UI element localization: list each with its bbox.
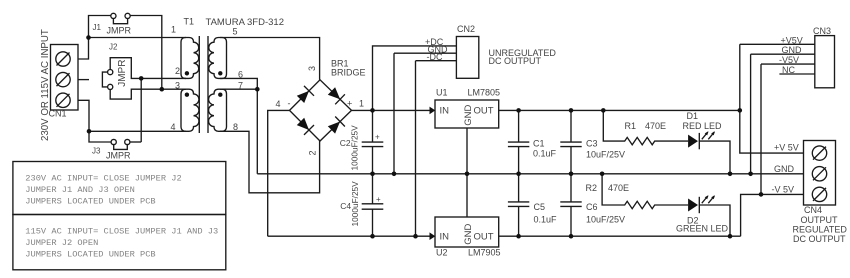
svg-text:1000uF/25V: 1000uF/25V: [350, 181, 360, 227]
svg-text:J2: J2: [109, 43, 118, 52]
svg-text:470E: 470E: [645, 121, 666, 131]
svg-text:115V AC INPUT= CLOSE JUMPER J1: 115V AC INPUT= CLOSE JUMPER J1 AND J3: [25, 227, 218, 237]
svg-text:LM7905: LM7905: [468, 248, 501, 258]
svg-text:C5: C5: [534, 202, 546, 212]
svg-text:0.1uF: 0.1uF: [534, 215, 558, 225]
svg-text:C1: C1: [533, 138, 545, 148]
svg-text:RED LED: RED LED: [683, 121, 723, 131]
svg-text:JMPR: JMPR: [117, 60, 128, 87]
svg-text:3: 3: [175, 81, 180, 91]
svg-text:DC OUTPUT: DC OUTPUT: [793, 234, 846, 244]
svg-text:4: 4: [276, 99, 281, 109]
svg-text:OUT: OUT: [474, 232, 494, 243]
svg-text:8: 8: [233, 122, 238, 132]
svg-text:CN3: CN3: [813, 26, 831, 36]
svg-text:JUMPER J2 OPEN: JUMPER J2 OPEN: [25, 238, 98, 248]
svg-text:GREEN LED: GREEN LED: [676, 224, 729, 234]
svg-text:GND: GND: [463, 224, 474, 245]
svg-text:10uF/25V: 10uF/25V: [586, 215, 625, 225]
svg-text:TAMURA 3FD-312: TAMURA 3FD-312: [206, 17, 284, 28]
svg-text:R1: R1: [625, 121, 637, 131]
svg-text:OUT: OUT: [474, 106, 494, 117]
svg-text:D1: D1: [687, 111, 699, 121]
svg-text:GND: GND: [782, 45, 803, 55]
svg-text:CN1: CN1: [49, 109, 67, 119]
svg-text:GND: GND: [463, 105, 474, 126]
svg-text:J3: J3: [92, 146, 101, 155]
svg-text:-: -: [288, 99, 291, 109]
svg-text:5: 5: [233, 27, 238, 37]
svg-text:2: 2: [175, 66, 180, 76]
svg-text:10uF/25V: 10uF/25V: [586, 150, 625, 160]
svg-text:JMPR: JMPR: [107, 26, 132, 36]
svg-text:JUMPER J1 AND J3 OPEN: JUMPER J1 AND J3 OPEN: [25, 185, 134, 195]
svg-text:+: +: [376, 195, 381, 204]
svg-text:JUMPERS LOCATED UNDER PCB: JUMPERS LOCATED UNDER PCB: [25, 250, 155, 260]
svg-text:IN: IN: [440, 232, 450, 243]
svg-text:T1: T1: [184, 17, 195, 27]
svg-text:LM7805: LM7805: [468, 88, 501, 98]
svg-text:C6: C6: [586, 202, 598, 212]
svg-text:-DC: -DC: [427, 52, 443, 62]
svg-text:DC OUTPUT: DC OUTPUT: [489, 56, 542, 66]
svg-text:REGULATED: REGULATED: [793, 225, 848, 235]
svg-text:JUMPERS LOCATED UNDER PCB: JUMPERS LOCATED UNDER PCB: [25, 197, 155, 207]
svg-text:2: 2: [308, 150, 318, 155]
svg-text:470E: 470E: [608, 183, 629, 193]
svg-text:J1: J1: [93, 23, 102, 32]
svg-text:GND: GND: [774, 164, 795, 174]
svg-text:230V AC INPUT= CLOSE JUMPER J2: 230V AC INPUT= CLOSE JUMPER J2: [25, 174, 181, 184]
svg-text:+: +: [347, 99, 352, 109]
svg-text:NC: NC: [782, 65, 795, 75]
svg-text:OUTPUT: OUTPUT: [801, 215, 839, 225]
svg-text:+: +: [375, 133, 380, 142]
svg-text:U1: U1: [436, 88, 448, 98]
svg-text:IN: IN: [440, 106, 450, 117]
svg-text:230V OR 115V AC INPUT: 230V OR 115V AC INPUT: [40, 29, 51, 141]
svg-text:JMPR: JMPR: [106, 151, 131, 161]
svg-text:0.1uF: 0.1uF: [533, 149, 557, 159]
svg-text:3: 3: [307, 66, 317, 71]
svg-text:-V5V: -V5V: [779, 55, 799, 65]
svg-text:+V 5V: +V 5V: [774, 143, 799, 153]
svg-text:1000uF/25V: 1000uF/25V: [350, 125, 360, 171]
svg-text:CN4: CN4: [804, 205, 822, 215]
svg-text:R2: R2: [586, 183, 598, 193]
svg-text:1: 1: [359, 99, 364, 109]
svg-text:+V5V: +V5V: [781, 35, 803, 45]
svg-text:-V 5V: -V 5V: [772, 185, 795, 195]
svg-text:4: 4: [171, 122, 176, 132]
svg-text:BRIDGE: BRIDGE: [331, 68, 366, 78]
svg-text:CN2: CN2: [457, 24, 475, 34]
svg-text:1: 1: [171, 25, 176, 35]
svg-text:U2: U2: [436, 248, 448, 258]
svg-text:C3: C3: [586, 138, 598, 148]
